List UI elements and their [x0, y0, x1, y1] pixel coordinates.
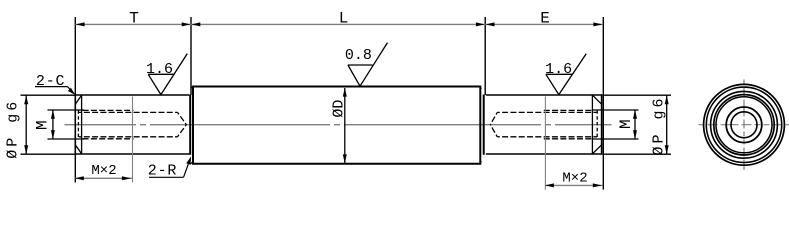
surface finish 1.6 left: [148, 54, 187, 95]
end view chamfer circle: [716, 97, 772, 153]
left thread mouth dashed vertical: [77, 110, 79, 138]
end view outer circle OD: [704, 84, 785, 165]
svg-text:M×2: M×2: [91, 163, 116, 179]
dimension line T: [75, 23, 191, 25]
dimension Mx2 right: [544, 97, 546, 190]
end view crosshair horizontal: [699, 124, 789, 126]
right thread mouth dashed vertical: [596, 110, 598, 138]
svg-text:M: M: [34, 120, 52, 130]
left stud body: [75, 94, 189, 155]
dimension M left: [48, 109, 85, 111]
left relief groove: [189, 95, 191, 155]
extension line right end x=602: [602, 17, 604, 190]
dimension M right: [593, 109, 639, 111]
dimension phi P g6 left: [21, 94, 75, 96]
svg-text:ØD: ØD: [331, 100, 348, 118]
end view circle 4: [714, 95, 774, 155]
end view thread circle: [726, 107, 762, 143]
svg-text:T: T: [129, 9, 139, 27]
right stud chamfer: [592, 95, 602, 154]
end view bore circle: [731, 112, 757, 138]
svg-text:2-C: 2-C: [36, 73, 65, 90]
svg-text:ØP g6: ØP g6: [5, 99, 22, 159]
centerline main axis: [65, 124, 612, 126]
svg-text:1.6: 1.6: [545, 61, 572, 78]
svg-text:1.6: 1.6: [146, 61, 173, 78]
dimension Mx2 left: [132, 97, 134, 183]
extension line left end x=75: [74, 17, 76, 183]
left stud drill hole dashed: [79, 112, 186, 136]
extension line left shoulder x=191: [190, 17, 192, 95]
cylinder corner chamfers: [191, 86, 482, 164]
right relief groove: [483, 95, 485, 155]
dimension line E: [485, 23, 602, 25]
right stud drill hole dashed: [490, 112, 597, 136]
end view circle 3 stud OD: [711, 91, 778, 158]
dimension OD (phi D): [344, 88, 346, 163]
svg-text:M: M: [617, 119, 635, 129]
dimension line L: [191, 23, 485, 25]
dimension phi P g6 right: [603, 94, 672, 96]
end view crosshair vertical: [743, 80, 745, 171]
svg-text:0.8: 0.8: [345, 47, 372, 64]
main cylinder: [193, 86, 480, 165]
right stud body: [486, 94, 602, 155]
left stud thread major dashed: [83, 110, 134, 138]
svg-text:E: E: [540, 9, 550, 27]
svg-text:M×2: M×2: [562, 170, 587, 186]
svg-text:L: L: [339, 9, 349, 27]
surface finish 0.8: [348, 43, 388, 87]
extension line right shoulder x=485: [484, 17, 486, 95]
right stud thread major dashed: [544, 110, 592, 138]
end view circle 2: [706, 87, 781, 162]
svg-text:ØP g6: ØP g6: [650, 95, 667, 155]
left stud chamfer: [75, 95, 82, 154]
surface finish 1.6 right: [546, 54, 586, 95]
